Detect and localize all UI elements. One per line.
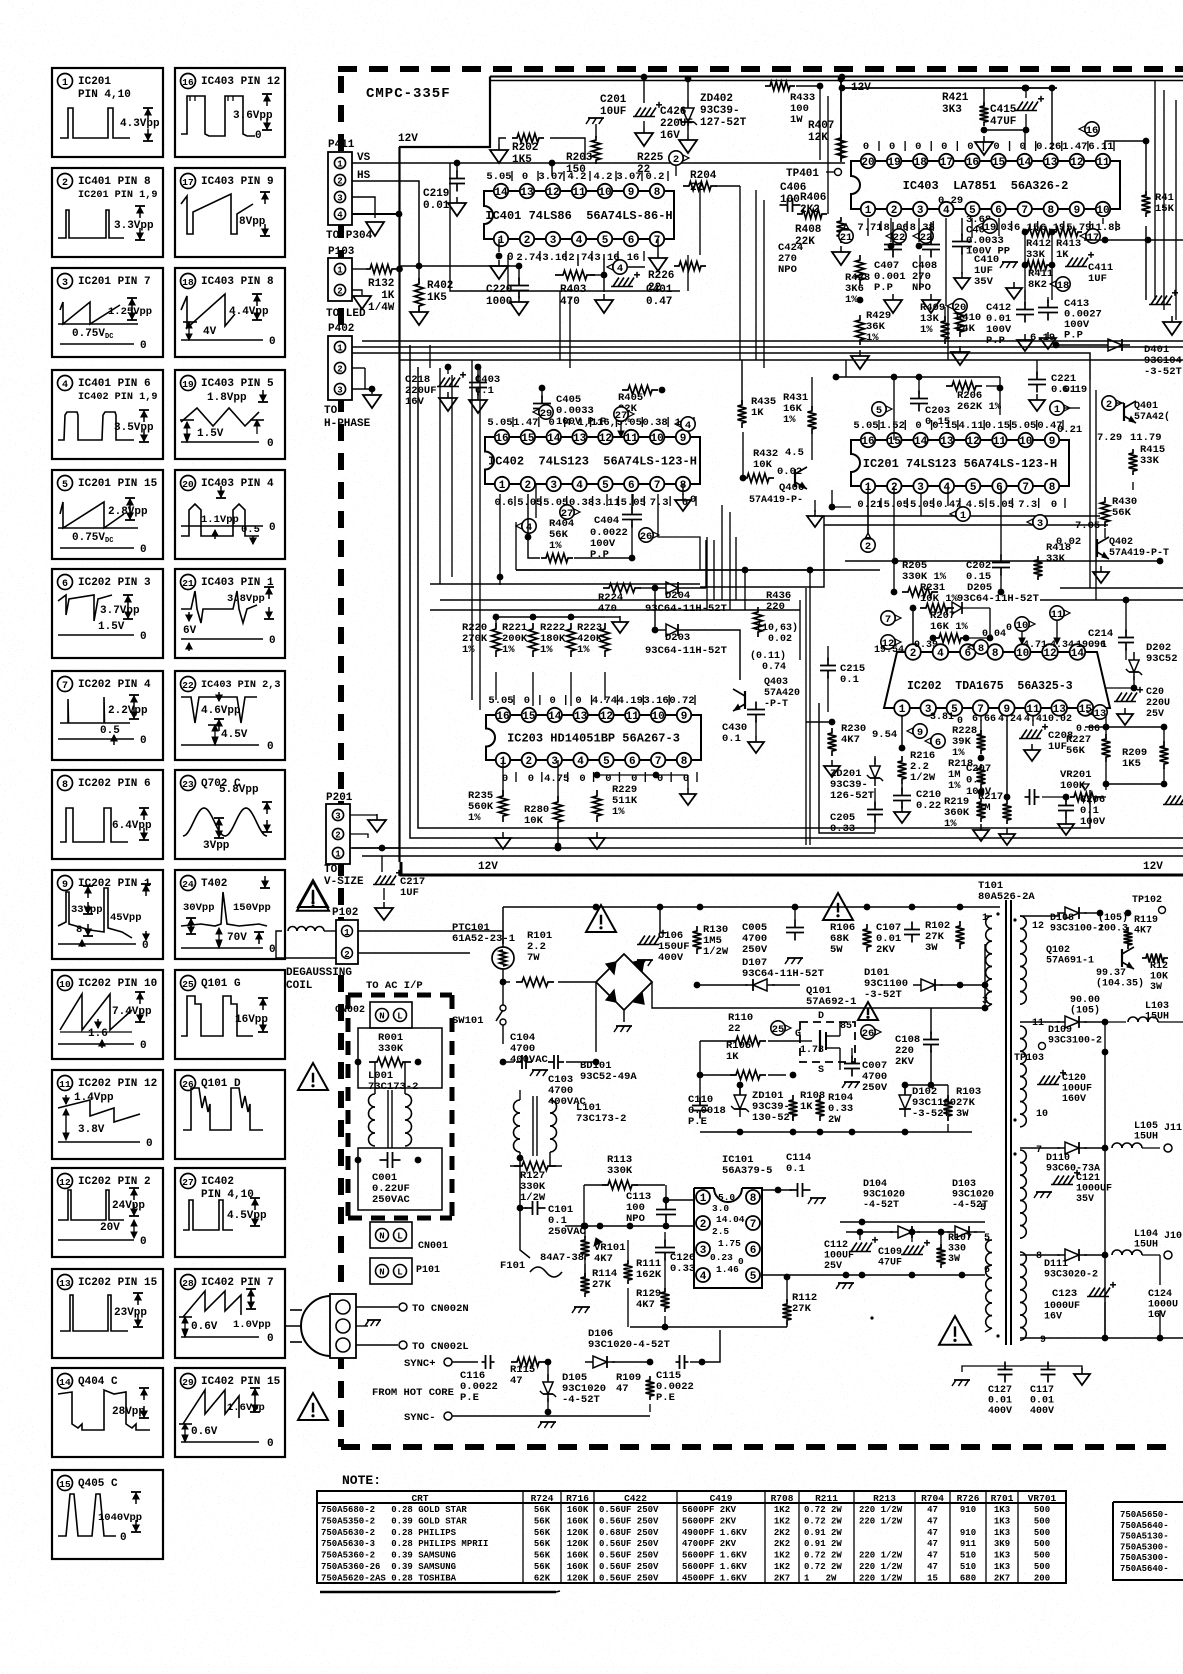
svg-text:400VAC: 400VAC: [510, 1054, 549, 1066]
svg-text:27K: 27K: [792, 1303, 812, 1315]
svg-text:70V: 70V: [227, 932, 247, 944]
svg-text:33K: 33K: [1026, 249, 1046, 261]
svg-text:0: 0: [140, 340, 147, 352]
dashed AC input box: [348, 995, 452, 1218]
svg-text:262K 1%: 262K 1%: [957, 401, 1002, 413]
wire secondary 8: [1020, 1254, 1060, 1256]
svg-text:R704: R704: [921, 1493, 944, 1504]
svg-text:47: 47: [510, 1375, 523, 1387]
svg-text:10: 10: [651, 433, 664, 445]
svg-text:4K7: 4K7: [1134, 926, 1152, 937]
svg-text:7: 7: [1021, 205, 1028, 217]
resistor R103: [931, 1085, 981, 1132]
svg-text:C124: C124: [1148, 1289, 1172, 1300]
svg-text:250VAC: 250VAC: [548, 1226, 587, 1238]
wire TO CN002N: [356, 1303, 469, 1315]
svg-text:2: 2: [525, 480, 532, 492]
svg-text:16V: 16V: [660, 130, 680, 142]
svg-text:29: 29: [540, 408, 553, 420]
capacitor C120 electrolytic: [1037, 1022, 1108, 1338]
svg-text:2: 2: [335, 831, 340, 841]
svg-text:10: 10: [1096, 205, 1109, 217]
svg-text:1K5: 1K5: [1122, 758, 1141, 770]
wire primary bottom rail: [700, 1082, 972, 1135]
svg-text:750A5130-: 750A5130-: [1120, 1532, 1169, 1542]
resistor R409: [920, 302, 969, 365]
svg-text:5: 5: [602, 480, 609, 492]
svg-text:1UF: 1UF: [1088, 273, 1107, 285]
capacitor C219: [423, 163, 466, 216]
transistor Q401: [1124, 401, 1170, 423]
svg-text:470: 470: [598, 603, 617, 615]
svg-text:3W: 3W: [925, 942, 938, 954]
svg-text:1%: 1%: [866, 332, 879, 344]
resistor R130: [693, 907, 729, 958]
capacitor C407: [874, 222, 906, 313]
svg-text:5.05: 5.05: [910, 499, 935, 511]
capacitor C214: [1088, 597, 1134, 660]
svg-text:3: 3: [550, 235, 557, 247]
waveform ref 16: [1079, 122, 1099, 137]
svg-text:8: 8: [1036, 1251, 1042, 1262]
svg-text:10K: 10K: [753, 459, 773, 471]
svg-text:22: 22: [182, 680, 194, 691]
svg-text:13: 13: [574, 711, 588, 723]
svg-text:7: 7: [655, 756, 662, 768]
svg-text:1.5V: 1.5V: [197, 428, 224, 440]
svg-text:-3-52T: -3-52T: [1144, 366, 1182, 378]
waveform box 8 (IC202 PIN 6): [52, 770, 163, 859]
svg-text:0.72 2W: 0.72 2W: [804, 1551, 842, 1561]
svg-text:3: 3: [700, 1245, 707, 1257]
svg-text:TO CN002N: TO CN002N: [412, 1303, 469, 1315]
scan artifact line under table: [320, 1591, 560, 1592]
svg-text:R204: R204: [690, 170, 717, 182]
svg-text:0.1: 0.1: [786, 1163, 805, 1175]
capacitor C217 electrolytic: [373, 856, 425, 920]
svg-text:4: 4: [526, 522, 532, 534]
svg-text:2: 2: [1106, 399, 1112, 411]
svg-text:D108: D108: [1050, 913, 1074, 924]
label TO V-SIZE: [324, 864, 364, 888]
waveform box 5 (IC201 PIN 15): [52, 470, 163, 559]
svg-text:5.0: 5.0: [718, 1192, 735, 1203]
svg-text:5600PF 2KV: 5600PF 2KV: [682, 1516, 737, 1526]
svg-text:27K: 27K: [592, 1279, 612, 1291]
svg-text:11: 11: [626, 711, 640, 723]
svg-text:1W: 1W: [790, 114, 803, 126]
svg-text:160K: 160K: [567, 1516, 589, 1526]
resistor R402: [410, 269, 453, 325]
svg-text:160K: 160K: [567, 1562, 589, 1572]
svg-text:1K3: 1K3: [994, 1551, 1010, 1561]
svg-text:0: 0: [120, 1532, 127, 1544]
svg-text:7.4Vpp: 7.4Vpp: [112, 1006, 152, 1018]
svg-text:2: 2: [526, 756, 533, 768]
svg-text:8: 8: [1047, 205, 1054, 217]
svg-text:TO P304: TO P304: [326, 230, 373, 242]
svg-text:6.19: 6.19: [1062, 384, 1087, 396]
resistor R112: [630, 1274, 817, 1327]
svg-text:4: 4: [617, 263, 623, 275]
resistor R225: [637, 151, 689, 176]
svg-text:VS: VS: [357, 152, 371, 164]
svg-text:5.8Vpp: 5.8Vpp: [219, 784, 259, 796]
svg-text:2: 2: [673, 154, 679, 166]
transistor Q101 MOSFET: [795, 985, 856, 1076]
svg-text:VR701: VR701: [1028, 1493, 1057, 1504]
svg-text:470: 470: [560, 296, 580, 308]
svg-text:4.71: 4.71: [1023, 640, 1047, 651]
svg-text:24K: 24K: [956, 323, 976, 335]
svg-text:0.56UF 250V: 0.56UF 250V: [599, 1505, 659, 1515]
svg-text:2: 2: [337, 365, 342, 375]
svg-text:61A52-23-1: 61A52-23-1: [452, 933, 515, 945]
svg-text:5: 5: [62, 480, 68, 491]
degaussing coil: [276, 927, 336, 959]
svg-text:1: 1: [62, 78, 68, 89]
svg-text:0: 0: [140, 1040, 147, 1052]
svg-text:9: 9: [62, 880, 68, 891]
svg-text:C422: C422: [624, 1493, 647, 1504]
svg-text:20: 20: [861, 157, 874, 169]
svg-text:27: 27: [561, 508, 574, 520]
svg-text:0: 0: [863, 141, 869, 153]
svg-text:TP102: TP102: [1132, 895, 1162, 906]
svg-text:1: 1: [337, 160, 343, 170]
resistor R432: [740, 432, 804, 483]
waveform box 22 (IC403 PIN 2,3): [175, 671, 285, 760]
svg-text:10UF: 10UF: [600, 106, 626, 118]
svg-text:1.6Vpp: 1.6Vpp: [227, 1402, 265, 1414]
capacitor C116: [452, 1355, 498, 1404]
svg-text:1%: 1%: [502, 644, 515, 656]
capacitor C126: [655, 1232, 695, 1275]
svg-text:4.19: 4.19: [618, 695, 643, 707]
svg-text:0: 0: [146, 1138, 153, 1150]
svg-text:30Vpp: 30Vpp: [183, 902, 215, 914]
warning triangle secondary: [870, 1316, 873, 1319]
resistor R105: [697, 1040, 786, 1105]
capacitor C412: [986, 290, 1034, 351]
svg-text:500: 500: [1034, 1562, 1050, 1572]
svg-text:150Vpp: 150Vpp: [233, 902, 271, 914]
svg-text:0: 0: [522, 171, 528, 183]
resistor R216: [898, 750, 936, 793]
svg-text:4900PF 1.6KV: 4900PF 1.6KV: [682, 1528, 747, 1538]
wire IC401 pin outputs: [552, 163, 604, 278]
waveform ref 6: [925, 734, 945, 749]
svg-text:PIN 4,10: PIN 4,10: [78, 89, 131, 101]
svg-text:47: 47: [927, 1528, 938, 1538]
svg-text:0: 0: [142, 940, 149, 952]
svg-text:5.05: 5.05: [517, 497, 542, 509]
svg-text:24: 24: [182, 879, 194, 890]
svg-text:S: S: [818, 1065, 824, 1076]
label 12V near P411: [398, 133, 418, 145]
svg-text:2K2: 2K2: [774, 1528, 790, 1538]
svg-text:12V: 12V: [398, 133, 418, 145]
svg-text:P411: P411: [328, 139, 355, 151]
svg-text:NPO: NPO: [778, 264, 797, 276]
svg-text:16V: 16V: [1148, 1310, 1166, 1321]
svg-text:1%: 1%: [549, 540, 562, 552]
wire inner frame left: [410, 345, 1183, 838]
warning triangle sync left: [297, 882, 329, 911]
svg-text:220: 220: [766, 601, 785, 613]
connector P201: [326, 792, 353, 864]
svg-text:0: 0: [579, 773, 585, 785]
svg-text:57A42(: 57A42(: [1134, 411, 1170, 423]
wire routing mesh sync 2: [430, 255, 921, 533]
svg-text:150: 150: [566, 164, 586, 176]
diode D203: [645, 624, 727, 657]
svg-text:0.72 2W: 0.72 2W: [804, 1562, 842, 1572]
svg-text:1K5: 1K5: [427, 292, 447, 304]
svg-text:2K2: 2K2: [774, 1539, 790, 1549]
label TO P304: [326, 230, 373, 242]
svg-text:3: 3: [1037, 518, 1043, 530]
resistor R408: [795, 217, 850, 265]
svg-text:15UH: 15UH: [1134, 1240, 1158, 1251]
svg-text:IC202 TDA1675 56A325-3: IC202 TDA1675 56A325-3: [907, 680, 1073, 693]
svg-text:330K: 330K: [378, 1043, 404, 1055]
waveform box 2 (IC401 PIN 8 IC201 PIN 1,9): [52, 168, 163, 257]
svg-text:1.75: 1.75: [718, 1238, 741, 1249]
svg-text:4700PF 2KV: 4700PF 2KV: [682, 1539, 737, 1549]
svg-text:IC202 PIN 12: IC202 PIN 12: [78, 1078, 157, 1090]
svg-text:17: 17: [940, 157, 953, 169]
svg-text:500: 500: [1034, 1505, 1050, 1515]
capacitor C115: [656, 1330, 720, 1404]
svg-text:5: 5: [602, 235, 609, 247]
svg-text:IC202 PIN 3: IC202 PIN 3: [78, 577, 151, 589]
svg-text:0: 0: [967, 141, 973, 153]
resistor R219: [944, 796, 989, 841]
svg-text:IC403 PIN 2,3: IC403 PIN 2,3: [201, 680, 280, 691]
svg-text:1: 1: [1054, 404, 1060, 416]
op-amp IC202 TDA1675: [884, 644, 1110, 716]
resistor R410: [941, 307, 982, 344]
svg-text:910: 910: [960, 1505, 976, 1515]
svg-text:11.79: 11.79: [1130, 432, 1162, 444]
svg-text:120K: 120K: [567, 1574, 589, 1584]
waveform box 13 (IC202 PIN 15): [52, 1269, 163, 1358]
svg-text:3.81: 3.81: [930, 712, 954, 723]
svg-text:6: 6: [935, 737, 941, 749]
svg-text:17: 17: [182, 177, 194, 188]
waveform box 16 (IC403 PIN 12): [175, 68, 285, 157]
op-amp IC101: [694, 1154, 772, 1288]
svg-text:4.24: 4.24: [998, 714, 1022, 725]
resistor R204: [683, 170, 740, 194]
svg-text:L: L: [397, 1232, 402, 1242]
svg-text:3: 3: [917, 482, 924, 494]
svg-text:2: 2: [524, 235, 531, 247]
svg-text:0.56UF 250V: 0.56UF 250V: [599, 1551, 659, 1561]
ground IC401 pin7: [649, 239, 667, 271]
dashed boundary border left edge: [338, 76, 344, 1447]
diode bridge BD101: [580, 954, 652, 1083]
capacitor C408: [912, 222, 940, 313]
svg-text:C419: C419: [710, 1493, 733, 1504]
svg-text:12: 12: [546, 187, 559, 199]
resistor R429: [851, 310, 891, 369]
waveform box 18 (IC403 PIN 8): [175, 268, 285, 357]
resistor R226: [648, 262, 706, 295]
svg-text:56K: 56K: [534, 1562, 551, 1572]
waveform box 17 (IC403 PIN 9): [175, 168, 285, 257]
wire D101 node: [960, 944, 988, 1008]
svg-text:3.8Vpp: 3.8Vpp: [227, 593, 265, 605]
svg-text:10: 10: [1036, 1109, 1048, 1120]
svg-text:12V: 12V: [851, 82, 871, 94]
wire P201 pin1 to bus: [350, 845, 399, 852]
svg-text:1K: 1K: [751, 407, 764, 419]
capacitor C108: [895, 1008, 939, 1085]
svg-text:TP103: TP103: [1014, 1053, 1044, 1064]
svg-text:26: 26: [862, 1028, 875, 1040]
capacitor C207: [966, 716, 1040, 805]
svg-text:0: 0: [524, 695, 530, 707]
svg-text:-3-52T: -3-52T: [864, 989, 902, 1001]
svg-text:93C1020-4-52T: 93C1020-4-52T: [588, 1339, 670, 1351]
svg-text:IC403 PIN 12: IC403 PIN 12: [201, 76, 280, 88]
wire lower bus 12V a: [352, 845, 1183, 852]
waveform ref 21: [839, 224, 853, 244]
svg-text:1K3: 1K3: [994, 1516, 1010, 1526]
svg-text:22: 22: [728, 1023, 741, 1035]
svg-text:33K: 33K: [1140, 455, 1160, 467]
note table right fragment: [1113, 1502, 1183, 1580]
svg-text:2.2Vpp: 2.2Vpp: [108, 705, 148, 717]
svg-text:4.74: 4.74: [592, 695, 617, 707]
svg-text:510: 510: [960, 1551, 976, 1561]
svg-text:5600PF 1.6KV: 5600PF 1.6KV: [682, 1562, 747, 1572]
svg-text:7: 7: [654, 235, 661, 247]
svg-text:IC203 HD14051BP 56A267-3: IC203 HD14051BP 56A267-3: [507, 732, 680, 746]
svg-text:4: 4: [337, 211, 343, 221]
waveform box 11 (IC202 PIN 12): [52, 1070, 163, 1159]
svg-text:8K2: 8K2: [1028, 279, 1047, 291]
waveform ref 4 at IC401: [607, 260, 645, 275]
svg-text:200: 200: [1034, 1574, 1050, 1584]
svg-text:93C64-11H-52T: 93C64-11H-52T: [645, 645, 727, 657]
svg-text:0.1: 0.1: [840, 674, 859, 686]
waveform box 26 (Q101 D): [175, 1070, 285, 1159]
svg-text:F101: F101: [500, 1260, 525, 1272]
resistor R418: [1034, 542, 1072, 580]
svg-text:6: 6: [628, 235, 635, 247]
svg-text:10: 10: [652, 711, 665, 723]
svg-text:1%: 1%: [783, 414, 796, 426]
svg-text:L104: L104: [1134, 1229, 1158, 1240]
svg-text:H-PHASE: H-PHASE: [324, 418, 371, 430]
dashed boundary border top edge: [338, 66, 1183, 72]
transformer T101 secondary 12: [1013, 913, 1044, 1004]
label TO AC I/P: [366, 980, 423, 992]
svg-text:14: 14: [1018, 157, 1032, 169]
svg-text:16: 16: [861, 436, 874, 448]
svg-text:CMPC-335F: CMPC-335F: [366, 86, 451, 102]
svg-text:57A419-P-: 57A419-P-: [749, 495, 803, 506]
svg-text:0: 0: [267, 741, 274, 753]
svg-text:0.02: 0.02: [1048, 714, 1072, 725]
wire IC201 top frame: [833, 374, 1000, 440]
resistor R433: [765, 82, 823, 127]
wire IC403 pin stubs: [868, 218, 1103, 306]
svg-text:4: 4: [937, 648, 944, 660]
waveform ref 3: [1027, 515, 1047, 530]
svg-text:23Vpp: 23Vpp: [114, 1307, 147, 1319]
svg-text:1.6: 1.6: [88, 1028, 108, 1040]
svg-text:4: 4: [576, 480, 583, 492]
svg-text:12K: 12K: [808, 132, 828, 144]
svg-text:14: 14: [494, 187, 508, 199]
svg-text:0: 0: [1006, 623, 1012, 634]
svg-text:C121: C121: [1076, 1173, 1100, 1184]
svg-text:0.6V: 0.6V: [191, 1321, 218, 1333]
ground resistor ladder: [612, 616, 628, 633]
svg-text:0: 0: [915, 141, 921, 153]
svg-text:1%: 1%: [920, 324, 933, 336]
svg-text:2.74: 2.74: [516, 252, 541, 264]
diode D108: [1050, 907, 1104, 934]
svg-text:6: 6: [750, 1245, 757, 1257]
svg-text:2KV: 2KV: [895, 1056, 915, 1068]
svg-text:6: 6: [995, 205, 1002, 217]
svg-text:3: 3: [917, 205, 924, 217]
waveform box 25 (Q101 G): [175, 970, 285, 1059]
resistor R406: [797, 192, 827, 219]
svg-text:0: 0: [267, 1438, 274, 1450]
svg-text:57A691-1: 57A691-1: [1046, 956, 1094, 967]
svg-text:100V P.P: 100V P.P: [556, 416, 606, 428]
potentiometer VR201: [1042, 769, 1109, 802]
svg-text:0.6: 0.6: [495, 497, 514, 509]
svg-text:0: 0: [140, 1236, 147, 1248]
svg-text:3Vpp: 3Vpp: [203, 840, 230, 852]
capacitor C104: [500, 1032, 549, 1069]
svg-text:21: 21: [182, 578, 194, 589]
svg-text:330K: 330K: [607, 1165, 633, 1177]
capacitor C218 electrolytic: [405, 364, 466, 411]
svg-text:4.3Vpp: 4.3Vpp: [120, 118, 160, 130]
waveform ref 4c: [516, 484, 536, 534]
svg-text:SYNC-: SYNC-: [404, 1412, 436, 1424]
svg-text:22: 22: [648, 282, 661, 294]
connector P101: [370, 1258, 440, 1284]
svg-text:0: 0: [140, 631, 147, 643]
svg-text:5.05: 5.05: [486, 171, 511, 183]
svg-text:0: 0: [550, 695, 556, 707]
svg-text:3.16: 3.16: [542, 252, 567, 264]
svg-text:R225: R225: [637, 152, 664, 164]
svg-text:Q405 C: Q405 C: [78, 1478, 118, 1490]
label 6.19b: [1030, 332, 1055, 344]
svg-text:R203: R203: [566, 152, 593, 164]
svg-text:29: 29: [182, 1377, 194, 1388]
svg-text:0: 0: [1051, 499, 1057, 511]
svg-text:IC201 PIN 1,9: IC201 PIN 1,9: [78, 190, 157, 201]
svg-text:P.P: P.P: [874, 282, 893, 294]
svg-text:15: 15: [522, 711, 536, 723]
diode D103: [917, 1179, 994, 1238]
svg-text:Q403: Q403: [764, 677, 788, 688]
svg-text:Q401: Q401: [1134, 401, 1158, 412]
resistor R222: [540, 614, 576, 657]
capacitor C413: [1038, 297, 1102, 349]
